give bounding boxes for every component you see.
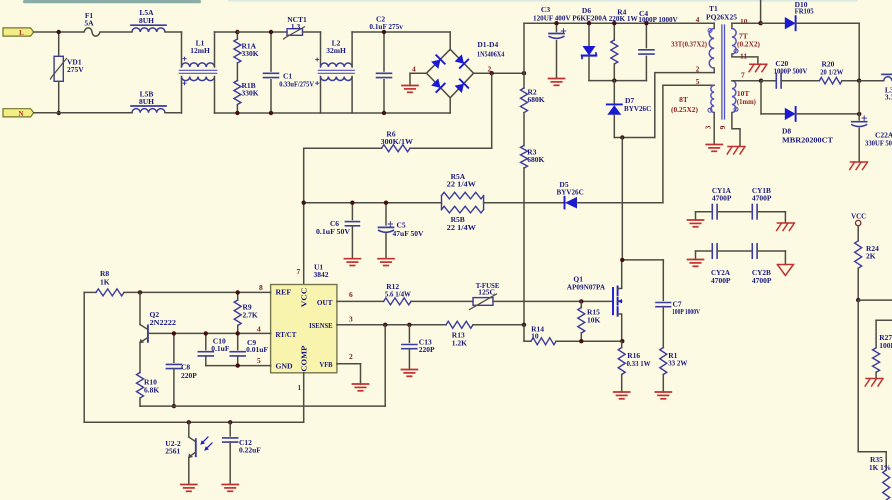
- wire R8 left drop: [83, 292, 85, 422]
- capacitor CY2B: [751, 244, 753, 258]
- diode D5: [564, 197, 566, 209]
- transformer T1 core: [721, 25, 723, 119]
- svg-text:2.7K: 2.7K: [243, 311, 258, 320]
- svg-text:PQ26X25: PQ26X25: [706, 13, 737, 22]
- wire L1-R1A: [215, 31, 238, 33]
- bridge diode bottom-left: [431, 78, 445, 92]
- junction C10 top: [204, 331, 208, 335]
- diode D6 TVS: [588, 23, 590, 46]
- junction drain riser: [620, 135, 624, 139]
- capacitor C1: [270, 32, 272, 71]
- junction C4: [644, 21, 648, 25]
- resistor R12: [384, 298, 411, 305]
- ground CY2 left: [695, 251, 697, 260]
- junction HV-R6: [490, 71, 494, 75]
- choke L1: [181, 32, 183, 67]
- svg-text:0.01uF: 0.01uF: [246, 345, 268, 354]
- resistor R20: [819, 77, 842, 84]
- svg-text:6.8K: 6.8K: [144, 386, 159, 395]
- wire pin7-D8: [760, 81, 762, 114]
- svg-text:1.2K: 1.2K: [452, 338, 467, 347]
- wire D10 drop: [858, 23, 860, 80]
- wire L2-C2: [352, 31, 450, 33]
- top toolbar remnant left: [23, 0, 201, 3]
- svg-text:4: 4: [257, 325, 261, 334]
- capacitor CY2A: [696, 250, 713, 252]
- ground C5: [378, 258, 394, 260]
- capacitor C9: [237, 333, 239, 349]
- wire ISENSE row: [337, 324, 446, 326]
- junction opto: [187, 420, 191, 424]
- wire snubber node: [589, 80, 646, 82]
- junction R13-R2R3: [522, 323, 526, 327]
- wire HV-R6 drop: [491, 73, 493, 148]
- transformer T1 sec 10T: [732, 81, 736, 113]
- wire R2-R3: [523, 113, 525, 146]
- junction out node: [857, 79, 861, 83]
- junction C1 bottom: [269, 111, 273, 115]
- junction R9 top: [236, 290, 240, 294]
- wire D10 stub up: [760, 0, 762, 23]
- svg-text:330K: 330K: [242, 49, 259, 58]
- svg-text:3: 3: [349, 315, 353, 324]
- capacitor C12: [229, 422, 231, 436]
- capacitor C20: [761, 80, 776, 82]
- ground C12: [222, 484, 238, 486]
- junction VCC col: [302, 201, 306, 205]
- svg-text:275V: 275V: [67, 65, 84, 74]
- svg-text:5: 5: [257, 356, 261, 365]
- diode D7: [613, 81, 615, 105]
- bridge pin 2 wire: [474, 72, 524, 74]
- resistor R14: [523, 325, 525, 341]
- wire TFUSE-gate: [493, 300, 613, 302]
- wire pin7 out: [732, 80, 761, 82]
- junction Q1 source: [620, 339, 624, 343]
- svg-text:BYV26C: BYV26C: [557, 188, 584, 197]
- svg-text:0.1uF: 0.1uF: [211, 344, 230, 353]
- svg-text:RT/CT: RT/CT: [276, 331, 297, 339]
- junction R1A top: [235, 30, 239, 34]
- wire OUT pin: [337, 300, 384, 302]
- svg-text:1K: 1K: [100, 278, 110, 287]
- ground C3: [549, 78, 565, 80]
- svg-text:8UH: 8UH: [139, 97, 154, 106]
- choke L2: [320, 32, 322, 67]
- svg-text:8UH: 8UH: [139, 16, 154, 25]
- junction D8 out: [857, 112, 861, 116]
- wire N rail: [215, 112, 451, 114]
- svg-text:4700P: 4700P: [712, 193, 732, 202]
- svg-text:3: 3: [704, 125, 713, 129]
- svg-text:33T(0.37X2): 33T(0.37X2): [671, 40, 707, 49]
- svg-text:VCC: VCC: [301, 288, 309, 308]
- wire R5-D5: [484, 202, 565, 204]
- resistor R15: [580, 301, 582, 307]
- wire F1-L5A: [100, 31, 132, 33]
- wire pin2 riser: [655, 73, 714, 138]
- resistor R1A: [236, 32, 238, 39]
- resistor R10: [137, 373, 144, 399]
- wire HV riser: [523, 23, 525, 73]
- diode D10: [761, 22, 785, 24]
- terminal L: [3, 28, 34, 36]
- junction snubber-D7: [612, 78, 616, 82]
- svg-text:10K: 10K: [587, 316, 601, 325]
- svg-text:6: 6: [349, 290, 353, 299]
- inductor L5A: [132, 28, 165, 32]
- svg-text:(1mm): (1mm): [737, 97, 756, 106]
- svg-text:4: 4: [696, 15, 700, 24]
- svg-text:7: 7: [297, 267, 301, 276]
- svg-text:680K: 680K: [528, 95, 545, 104]
- capacitor CY1A: [696, 211, 713, 213]
- diode D8: [785, 108, 796, 120]
- junction R8-Q2: [138, 290, 142, 294]
- junction R4: [612, 21, 616, 25]
- svg-text:20 1/2W: 20 1/2W: [820, 67, 843, 76]
- capacitor C4: [645, 23, 647, 47]
- junction R24: [856, 298, 860, 302]
- terminal N: [3, 109, 34, 117]
- wire top R1A-C1: [237, 31, 287, 33]
- resistor pair R5A R5B: [441, 196, 443, 210]
- wire VCC row: [304, 202, 442, 204]
- wire D7-pin2 riser: [614, 137, 655, 139]
- bridge pin 4 wire: [410, 72, 427, 74]
- svg-text:N: N: [18, 110, 23, 118]
- svg-text:L: L: [19, 29, 24, 37]
- varistor VD1: [58, 32, 60, 56]
- resistor R2: [523, 73, 525, 88]
- ground C13: [401, 369, 417, 371]
- svg-text:2: 2: [696, 64, 700, 73]
- svg-text:9: 9: [718, 125, 727, 129]
- resistor R16: [621, 341, 623, 347]
- wire R3 down: [523, 168, 525, 325]
- resistor R1: [660, 348, 667, 375]
- svg-text:VCC: VCC: [851, 211, 866, 220]
- svg-text:680K: 680K: [527, 155, 544, 164]
- junction C12: [228, 420, 232, 424]
- wire RT/CT row: [148, 332, 271, 334]
- ground R16: [614, 391, 630, 393]
- svg-text:T1: T1: [709, 4, 718, 13]
- svg-text:22 1/4W: 22 1/4W: [447, 223, 477, 232]
- wire top rail: [524, 22, 714, 24]
- svg-text:(0.2X2): (0.2X2): [737, 40, 760, 49]
- wire L input: [34, 31, 84, 33]
- junction C6: [350, 201, 354, 205]
- wire REF row: [140, 291, 271, 293]
- capacitor C22A: [858, 114, 860, 120]
- svg-text:11: 11: [740, 52, 747, 61]
- capacitor C10: [205, 333, 207, 349]
- transistor Q2: [139, 292, 141, 324]
- junction ISENSE-C13: [407, 323, 411, 327]
- svg-text:47uF 50V: 47uF 50V: [393, 229, 425, 238]
- svg-text:330K: 330K: [242, 89, 259, 98]
- wire out drop: [858, 81, 860, 114]
- svg-text:0.1uF 50V: 0.1uF 50V: [316, 227, 351, 236]
- svg-text:4700P: 4700P: [752, 193, 772, 202]
- svg-text:D1-D4: D1-D4: [477, 40, 498, 49]
- wire drain row: [622, 259, 663, 261]
- wire fb in: [876, 319, 892, 321]
- junction C9 bottom: [236, 363, 240, 367]
- wire L5B-L1: [165, 112, 182, 114]
- svg-text:2N2222: 2N2222: [150, 318, 177, 327]
- svg-text:7: 7: [741, 71, 745, 80]
- bridge diode top-right: [454, 54, 468, 68]
- bridge diode top-left: [431, 55, 445, 69]
- ground C6: [344, 258, 360, 260]
- bridge diode bottom-right: [454, 79, 468, 93]
- resistor R35: [858, 451, 886, 453]
- svg-text:1: 1: [298, 383, 302, 392]
- fuse F1: [84, 28, 100, 36]
- svg-text:2561: 2561: [165, 447, 180, 456]
- wire fb down: [857, 300, 859, 452]
- svg-text:MBR20200CT: MBR20200CT: [782, 135, 833, 144]
- svg-text:0.33uF/275V: 0.33uF/275V: [279, 79, 314, 88]
- ground CY1 right chassis: [784, 212, 786, 223]
- wire drain riser: [621, 138, 623, 260]
- resistor R13: [446, 321, 473, 328]
- transistor Q1: [612, 288, 614, 314]
- svg-text:AP09N07PA: AP09N07PA: [567, 282, 606, 291]
- svg-text:33 2W: 33 2W: [668, 359, 688, 368]
- svg-text:D8: D8: [782, 126, 791, 135]
- svg-text:2: 2: [349, 352, 353, 361]
- svg-text:10: 10: [531, 331, 539, 340]
- junction D10 in: [758, 21, 762, 25]
- svg-text:10: 10: [740, 17, 748, 26]
- ground CY1 left: [695, 212, 697, 220]
- inductor L3: [859, 80, 884, 82]
- wire NCT1-L2: [303, 31, 321, 33]
- wire comp row: [84, 421, 304, 423]
- capacitor C5: [385, 203, 387, 225]
- capacitor C13: [408, 325, 410, 343]
- svg-text:32mH: 32mH: [326, 46, 346, 55]
- svg-text:REF: REF: [276, 289, 292, 297]
- svg-text:1N5406X4: 1N5406X4: [477, 50, 504, 59]
- svg-text:4700P: 4700P: [752, 276, 772, 285]
- junction ISENSE-ramp: [383, 323, 387, 327]
- ground pin11 chassis: [750, 63, 766, 65]
- bridge D1-D4 frame: [427, 49, 474, 98]
- wire VFB ground: [337, 363, 361, 365]
- ground T1 pin3: [706, 144, 722, 146]
- svg-text:220P: 220P: [419, 345, 435, 354]
- svg-text:1000P 500V: 1000P 500V: [774, 67, 808, 76]
- junction R1B bottom: [235, 111, 239, 115]
- svg-text:5A: 5A: [84, 18, 94, 27]
- ground R1: [655, 391, 671, 393]
- top toolbar remnant right: [228, 0, 858, 2]
- svg-text:5: 5: [696, 77, 700, 86]
- svg-text:100P 1000V: 100P 1000V: [672, 307, 700, 316]
- svg-text:330UF 50: 330UF 50: [865, 138, 892, 147]
- svg-text:2K: 2K: [866, 252, 876, 261]
- wire ramp row: [384, 325, 386, 406]
- svg-text:5.6 1/4W: 5.6 1/4W: [385, 290, 411, 299]
- transistor U2-2 opto: [188, 422, 190, 437]
- svg-text:120UF 400V: 120UF 400V: [533, 14, 571, 23]
- junction C8 bottom: [172, 404, 176, 408]
- inductor L5B: [132, 109, 165, 113]
- junction L-VD1: [57, 30, 61, 34]
- ground CY2 right triangle: [784, 251, 786, 265]
- svg-text:300K/1W: 300K/1W: [381, 137, 414, 146]
- svg-text:COMP: COMP: [301, 345, 309, 372]
- capacitor C2: [383, 32, 385, 71]
- svg-text:BYV26C: BYV26C: [624, 104, 651, 113]
- junction pin7: [759, 79, 763, 83]
- wire T1 pin10-rail: [732, 22, 761, 24]
- op-amp U1 box: [271, 285, 337, 373]
- resistor R27: [873, 348, 880, 373]
- resistor R24: [857, 226, 859, 241]
- ground 10T chassis: [728, 146, 744, 148]
- svg-text:220P: 220P: [181, 371, 197, 380]
- junction C3: [554, 21, 558, 25]
- junction R15 bottom: [579, 339, 583, 343]
- capacitor C3: [556, 23, 558, 31]
- wire R12-TFUSE: [411, 300, 473, 302]
- junction HV riser: [522, 71, 526, 75]
- capacitor CY1B: [751, 205, 753, 219]
- fuse T-FUSE: [473, 298, 493, 306]
- transformer T1 sec 7T: [731, 23, 733, 28]
- junction C2 bottom: [382, 111, 386, 115]
- svg-text:0.33 1W: 0.33 1W: [627, 359, 651, 368]
- transformer T1 primary: [713, 23, 715, 28]
- resistor R6: [410, 147, 492, 149]
- junction C5: [384, 201, 388, 205]
- resistor R9: [237, 292, 239, 300]
- resistor R4: [613, 23, 615, 40]
- ground R27 chassis: [866, 378, 882, 380]
- transformer T1 aux 8T: [663, 84, 714, 86]
- wire COMP drop: [303, 373, 305, 423]
- svg-text:(0.25X2): (0.25X2): [671, 105, 698, 114]
- ground U2-2: [181, 484, 197, 486]
- resistor R8: [84, 291, 96, 293]
- ground VFB: [353, 383, 369, 385]
- capacitor C8: [173, 333, 175, 362]
- wire pin5 riser: [662, 85, 664, 202]
- junction drain: [620, 258, 624, 262]
- svg-text:8T: 8T: [679, 95, 688, 104]
- wire L5A-L1: [165, 31, 182, 33]
- ground C22A chassis: [851, 161, 867, 163]
- junction C9 top: [236, 331, 240, 335]
- capacitor C7: [662, 260, 664, 301]
- svg-text:3842: 3842: [314, 270, 329, 279]
- svg-text:GND: GND: [276, 362, 293, 370]
- capacitor C6: [351, 203, 353, 220]
- svg-text:FR105: FR105: [795, 7, 814, 16]
- junction R15 top: [579, 299, 583, 303]
- svg-text:100K: 100K: [879, 341, 892, 350]
- junction N-VD1: [57, 111, 61, 115]
- ground bridge negative: [402, 85, 418, 87]
- junction C1 top: [269, 30, 273, 34]
- svg-text:12mH: 12mH: [190, 46, 210, 55]
- thermistor NCT1: [287, 29, 303, 36]
- svg-text:0.22uF: 0.22uF: [239, 446, 261, 455]
- resistor R1B: [236, 63, 238, 81]
- svg-text:125C: 125C: [478, 288, 495, 297]
- svg-text:0.1uF 275v: 0.1uF 275v: [369, 22, 403, 31]
- junction C2 top: [382, 30, 386, 34]
- junction C8 top: [172, 331, 176, 335]
- svg-text:1K 1%: 1K 1%: [869, 463, 891, 472]
- svg-text:ISENSE: ISENSE: [309, 322, 333, 330]
- resistor R3: [521, 146, 528, 169]
- svg-text:3.3: 3.3: [885, 92, 892, 101]
- wire GND row: [206, 365, 271, 367]
- svg-text:1.3: 1.3: [291, 22, 301, 31]
- svg-text:4700P: 4700P: [711, 276, 731, 285]
- junction D6: [587, 21, 591, 25]
- wire D5-pin5: [577, 202, 663, 204]
- svg-text:4: 4: [412, 64, 416, 73]
- wire N input: [34, 112, 132, 114]
- svg-text:VFB: VFB: [320, 361, 333, 369]
- wire fb out: [858, 299, 892, 301]
- svg-text:OUT: OUT: [317, 299, 333, 307]
- svg-text:8: 8: [259, 283, 263, 292]
- wire VCC column: [303, 148, 305, 284]
- svg-text:22 1/4W: 22 1/4W: [447, 180, 477, 189]
